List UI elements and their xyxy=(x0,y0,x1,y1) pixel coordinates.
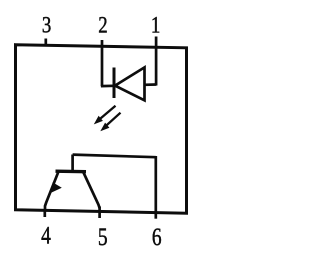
svg-text:2: 2 xyxy=(98,12,107,38)
light arrow shaft 1 xyxy=(98,106,116,121)
pin 3 stub (NC) xyxy=(44,39,47,47)
wire: base to pin 6 xyxy=(73,155,156,158)
svg-text:5: 5 xyxy=(98,223,108,251)
pin 6 lead wire and stub xyxy=(154,156,157,219)
package outline box xyxy=(16,45,187,214)
light arrow shaft 2 xyxy=(104,113,121,128)
light arrow head 1 xyxy=(94,116,103,125)
svg-text:4: 4 xyxy=(41,221,51,249)
pin 5 stub xyxy=(98,207,101,219)
diode D1 triangle (LED) xyxy=(115,67,145,100)
diode D1 cathode bar xyxy=(113,68,116,99)
transistor Q1 base lead xyxy=(71,155,74,172)
svg-text:1: 1 xyxy=(151,12,160,38)
svg-text:3: 3 xyxy=(42,12,51,38)
wire: diode anode lead xyxy=(145,83,157,86)
transistor Q1 base bar xyxy=(56,169,87,173)
pin 4 stub xyxy=(43,210,46,217)
light arrow head 2 xyxy=(100,123,109,132)
svg-text:6: 6 xyxy=(152,223,162,251)
pin 1 stub and lead wire xyxy=(155,37,158,86)
wire: diode cathode lead xyxy=(101,84,114,87)
pin 2 stub and lead wire xyxy=(101,40,104,86)
transistor Q1 emitter arrowhead xyxy=(51,182,62,192)
transistor Q1 emitter lead xyxy=(45,172,59,211)
transistor Q1 collector lead xyxy=(83,172,100,209)
